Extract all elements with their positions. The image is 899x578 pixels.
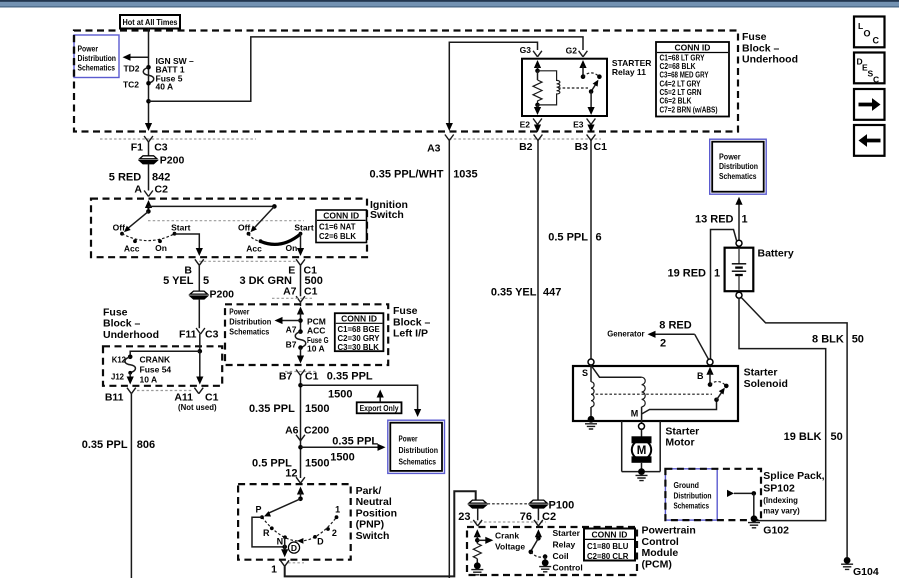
svg-text:1500: 1500 [305,457,329,469]
svg-text:Starter: Starter [665,425,699,437]
svg-text:C1=68 LT GRY: C1=68 LT GRY [660,53,706,62]
svg-text:Relay 11: Relay 11 [612,67,646,77]
svg-text:C1=80 BLU: C1=80 BLU [587,542,629,551]
svg-text:5: 5 [203,275,209,287]
svg-text:1500: 1500 [328,388,352,400]
svg-text:C2: C2 [542,511,556,523]
svg-text:76: 76 [520,511,532,523]
svg-text:0.5 PPL: 0.5 PPL [548,232,588,244]
svg-text:D: D [291,543,297,553]
svg-text:Schematics: Schematics [674,502,710,511]
svg-text:19 BLK: 19 BLK [784,431,822,443]
svg-text:Starter: Starter [553,528,581,538]
svg-text:F11: F11 [179,329,197,341]
svg-text:Start: Start [294,223,314,233]
svg-text:F1: F1 [131,142,143,154]
svg-text:Powertrain: Powertrain [642,525,696,537]
svg-text:TD2: TD2 [123,63,139,73]
svg-text:D: D [317,537,324,547]
svg-text:P200: P200 [160,155,185,167]
svg-text:Crank: Crank [495,530,519,540]
svg-text:10 A: 10 A [140,374,158,384]
svg-text:Block –: Block – [103,318,141,330]
svg-text:1: 1 [714,267,720,279]
svg-text:Fuse 54: Fuse 54 [140,364,172,374]
svg-text:CONN ID: CONN ID [592,529,628,539]
svg-text:Hot at All Times: Hot at All Times [123,18,179,27]
svg-text:Left I/P: Left I/P [393,328,428,340]
svg-text:J12: J12 [111,372,125,381]
svg-text:Switch: Switch [370,209,404,221]
svg-text:C3: C3 [154,142,168,154]
svg-text:C1: C1 [305,371,319,383]
svg-text:Fuse: Fuse [742,31,767,43]
svg-text:2: 2 [332,528,337,538]
svg-text:Position: Position [356,507,397,519]
svg-text:Power: Power [399,435,418,444]
svg-text:(PCM): (PCM) [642,559,672,571]
svg-text:C2=80 CLR: C2=80 CLR [587,552,629,561]
svg-text:8 BLK: 8 BLK [812,333,844,345]
svg-text:S: S [582,368,588,378]
svg-text:Neutral: Neutral [356,496,392,508]
svg-text:C1=68 BGE: C1=68 BGE [338,325,380,334]
svg-text:C2: C2 [155,184,169,196]
svg-text:0.35 PPL: 0.35 PPL [332,435,378,447]
svg-text:C1: C1 [304,285,318,297]
svg-text:1: 1 [335,504,340,514]
svg-text:may vary): may vary) [763,507,800,516]
svg-text:Fuse: Fuse [103,306,128,318]
svg-text:K12: K12 [112,355,127,364]
svg-text:ACC: ACC [307,326,325,336]
svg-text:On: On [285,243,297,253]
svg-text:N: N [277,536,284,546]
svg-text:0.35 PPL: 0.35 PPL [327,371,373,383]
svg-text:50: 50 [852,333,864,345]
svg-text:B2: B2 [519,141,533,153]
svg-text:Solenoid: Solenoid [744,378,788,390]
svg-text:Module: Module [642,547,679,559]
svg-text:CONN ID: CONN ID [323,210,359,220]
svg-text:50: 50 [831,431,843,443]
svg-text:Motor: Motor [665,437,694,449]
svg-text:Schematics: Schematics [719,172,757,181]
svg-text:Park/: Park/ [356,485,382,497]
svg-text:1035: 1035 [453,169,477,181]
svg-text:C: C [873,36,880,46]
svg-text:Power: Power [78,45,99,54]
svg-text:Underhood: Underhood [742,54,798,66]
svg-text:Distribution: Distribution [78,54,117,63]
svg-text:Schematics: Schematics [229,328,270,337]
svg-text:19 RED: 19 RED [667,267,706,279]
svg-text:B3: B3 [575,141,589,153]
svg-text:Distribution: Distribution [674,491,712,500]
svg-text:A7: A7 [283,285,297,297]
svg-text:CRANK: CRANK [140,354,172,364]
svg-text:A3: A3 [427,143,441,155]
svg-text:A: A [134,184,142,196]
svg-text:Switch: Switch [356,530,390,542]
svg-text:B7: B7 [279,371,293,383]
svg-text:C200: C200 [304,424,329,436]
svg-text:B7: B7 [286,339,297,349]
svg-text:Block –: Block – [742,42,780,54]
svg-text:447: 447 [543,287,561,299]
svg-text:C1: C1 [205,391,219,403]
svg-text:C3=68 MED GRY: C3=68 MED GRY [660,71,710,80]
svg-text:TC2: TC2 [123,79,139,89]
svg-text:6: 6 [596,232,602,244]
svg-text:Power: Power [229,308,249,317]
svg-text:806: 806 [137,439,155,451]
svg-text:842: 842 [152,171,170,183]
svg-text:5 RED: 5 RED [109,171,141,183]
svg-text:Voltage: Voltage [495,541,525,551]
svg-text:(Not used): (Not used) [178,403,217,412]
svg-text:Block –: Block – [393,316,431,328]
svg-text:12: 12 [285,467,297,479]
svg-text:Acc: Acc [246,244,262,254]
svg-text:CONN ID: CONN ID [341,313,377,323]
svg-text:0.35 PPL: 0.35 PPL [249,403,295,415]
svg-text:R: R [263,528,270,538]
svg-text:G102: G102 [763,524,789,536]
svg-text:C4=2 LT GRY: C4=2 LT GRY [660,79,702,88]
svg-text:Distribution: Distribution [229,318,271,327]
svg-text:Relay: Relay [553,540,576,550]
svg-text:On: On [155,243,167,253]
svg-text:1500: 1500 [305,403,329,415]
svg-text:Control: Control [642,536,679,548]
svg-text:Underhood: Underhood [103,329,159,341]
svg-text:Starter: Starter [744,367,778,379]
svg-text:Acc: Acc [124,244,140,254]
svg-text:E2: E2 [520,120,531,130]
svg-text:G3: G3 [520,45,532,55]
svg-text:Power: Power [719,153,741,162]
svg-text:M: M [631,409,639,419]
svg-text:Schematics: Schematics [399,458,437,467]
svg-text:0.35 YEL: 0.35 YEL [491,287,537,299]
svg-text:M: M [637,445,647,457]
svg-text:P100: P100 [549,499,575,511]
svg-text:Coil: Coil [553,551,569,561]
svg-text:1500: 1500 [330,451,354,463]
svg-text:L: L [858,21,863,31]
svg-text:0.35 PPL/WHT: 0.35 PPL/WHT [370,169,444,181]
svg-text:CONN ID: CONN ID [675,43,711,53]
svg-text:Distribution: Distribution [399,446,439,455]
svg-text:Fuse: Fuse [393,305,418,317]
svg-text:A11: A11 [174,391,193,403]
svg-text:B11: B11 [105,391,124,403]
svg-text:2: 2 [660,337,666,349]
svg-text:A7: A7 [286,324,297,334]
svg-text:C2=6 BLK: C2=6 BLK [319,232,356,241]
svg-text:G2: G2 [566,46,578,56]
svg-text:Distribution: Distribution [719,162,758,171]
svg-text:Start: Start [171,223,191,233]
svg-text:40 A: 40 A [156,82,174,92]
svg-text:5 YEL: 5 YEL [163,275,194,287]
svg-text:8 RED: 8 RED [659,320,691,332]
svg-text:O: O [864,29,871,39]
svg-text:13 RED: 13 RED [695,214,734,226]
svg-text:Off: Off [113,223,125,233]
svg-text:C3=30 BLK: C3=30 BLK [338,343,380,352]
svg-text:(Indexing: (Indexing [763,496,798,505]
svg-text:C2=30 GRY: C2=30 GRY [338,334,381,343]
svg-text:23: 23 [458,511,470,523]
svg-text:Splice Pack,: Splice Pack, [763,470,824,482]
svg-text:C1=6 NAT: C1=6 NAT [319,222,356,231]
svg-text:SP102: SP102 [763,483,795,495]
svg-text:Schematics: Schematics [78,64,116,73]
svg-text:Ground: Ground [674,481,700,490]
svg-text:G104: G104 [853,566,879,578]
svg-text:0.35 PPL: 0.35 PPL [82,439,128,451]
svg-text:1: 1 [271,563,277,575]
svg-text:C: C [873,75,879,85]
svg-text:Export Only: Export Only [360,404,400,413]
svg-text:P: P [255,504,261,514]
svg-text:C7=2 BRN (w/ABS): C7=2 BRN (w/ABS) [660,105,718,114]
svg-text:10 A: 10 A [307,343,325,353]
svg-text:Battery: Battery [758,248,794,260]
svg-text:C3: C3 [205,329,219,341]
svg-text:B: B [697,371,704,381]
svg-text:C1: C1 [594,141,608,153]
svg-text:(PNP): (PNP) [356,519,385,531]
svg-text:Off: Off [238,223,250,233]
svg-text:Generator: Generator [607,330,644,339]
svg-text:C6=2 BLK: C6=2 BLK [660,97,692,106]
svg-text:Control: Control [553,563,583,573]
svg-text:P200: P200 [210,288,235,300]
svg-text:E3: E3 [573,120,584,130]
svg-text:1: 1 [742,214,748,226]
